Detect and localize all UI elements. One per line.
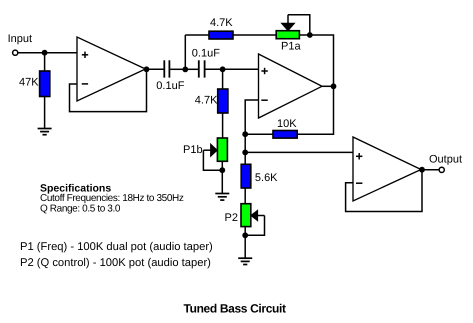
svg-text:P1b: P1b [183, 144, 203, 156]
svg-text:P1 (Freq) - 100K dual pot (aud: P1 (Freq) - 100K dual pot (audio taper) [20, 241, 213, 253]
wire 10K to feedback column [245, 133, 273, 135]
op-amp U2 [259, 54, 323, 118]
wire node B down to 4.7K [222, 69, 224, 89]
op-amp U1 [77, 37, 146, 101]
wire column to op-amp U3 + [245, 151, 353, 153]
P1a wiper arrow [282, 15, 295, 31]
wire U1 output to C1 [147, 68, 164, 70]
node U3 output [419, 167, 425, 173]
resistor 5.6K [241, 164, 251, 188]
wire U2 output [322, 85, 334, 87]
wire input to op-amp U1 + [18, 52, 77, 54]
wire node A up to top row [184, 35, 186, 69]
ground G3 [238, 258, 252, 264]
node U1 output [144, 66, 150, 72]
wire P1a wiper loop [288, 15, 310, 35]
node P2 wiper junction [242, 232, 248, 238]
output terminal [439, 167, 444, 172]
capacitor C1 0.1uF [164, 60, 169, 77]
op-amp U3 [353, 137, 421, 201]
ground G2 [215, 194, 229, 201]
svg-text:P2 (Q control) - 100K pot (aud: P2 (Q control) - 100K pot (audio taper) [20, 257, 211, 269]
node input junction [42, 50, 48, 56]
ground G1 [38, 129, 52, 135]
node A (between caps) [182, 67, 188, 73]
svg-text:10K: 10K [277, 118, 297, 130]
resistor 47K [40, 71, 50, 97]
input terminal [13, 50, 18, 55]
svg-text:Q Range: 0.5 to 3.0: Q Range: 0.5 to 3.0 [40, 203, 121, 214]
svg-text:0.1uF: 0.1uF [192, 48, 220, 60]
svg-text:Output: Output [429, 153, 462, 165]
wire 5.6K to P2 [244, 188, 246, 204]
wire P2 wiper loop [245, 216, 264, 236]
node U2 output [331, 83, 337, 89]
wire junction down to 47K [44, 53, 46, 71]
node B (after C2) [220, 66, 226, 72]
svg-text:P2: P2 [225, 212, 238, 224]
wire U1 feedback: - input to output [70, 69, 147, 111]
specifications text block [40, 182, 184, 214]
potentiometer P2 [241, 204, 251, 227]
node 10K left junction [242, 131, 248, 137]
svg-text:Input: Input [8, 33, 32, 45]
wire C2 to op-amp U2 + [205, 68, 258, 70]
svg-text:P1a: P1a [281, 40, 301, 52]
capacitor C2 0.1uF [199, 60, 205, 77]
svg-text:47K: 47K [19, 77, 39, 89]
svg-text:4.7K: 4.7K [195, 95, 218, 107]
resistor 4.7K (top) [209, 31, 233, 39]
wire U3 output to terminal [422, 169, 439, 171]
wire node A to C2 [185, 68, 198, 70]
node P1a wiper junction [307, 32, 313, 38]
wire P1b wiper loop [203, 150, 222, 170]
svg-text:4.7K: 4.7K [210, 17, 233, 29]
wire 4.7K to P1b [222, 113, 224, 138]
svg-text:Tuned Bass Circuit: Tuned Bass Circuit [184, 302, 287, 316]
node op3 + row junction [242, 150, 248, 156]
svg-text:5.6K: 5.6K [255, 172, 278, 184]
wire P1b to ground [221, 161, 223, 193]
wire 47K to ground [44, 97, 46, 129]
resistor 10K [273, 131, 297, 139]
P1b wiper arrow [203, 144, 217, 156]
wire top row [185, 35, 333, 86]
wire U3 feedback: - input to output [346, 170, 422, 212]
wire C1 to node A [170, 68, 185, 70]
wire U2 - input to column [245, 100, 258, 164]
wire U2 output down to 10K row [297, 86, 333, 134]
resistor 4.7K (vertical) [218, 89, 228, 113]
potentiometer P1a [276, 31, 299, 39]
potentiometer P1b [217, 138, 227, 161]
P2 wiper arrow [251, 210, 265, 220]
node P1b wiper junction [219, 167, 225, 173]
svg-text:0.1uF: 0.1uF [156, 80, 184, 92]
wire P2 to ground [244, 227, 246, 259]
